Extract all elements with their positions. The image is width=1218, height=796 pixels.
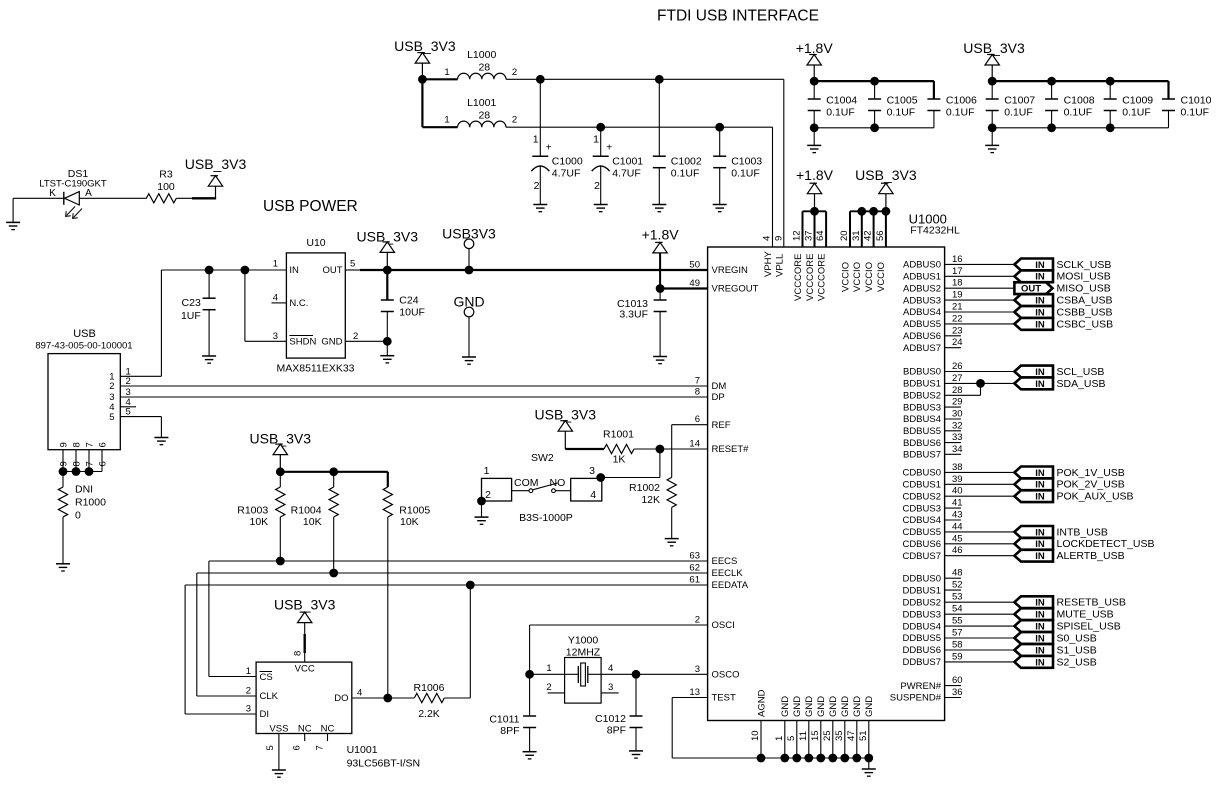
svg-text:USB_3V3: USB_3V3 — [274, 597, 336, 613]
U1000 pin 61 EEDATA — [689, 575, 748, 592]
U1000 pin 34 BDBUS7 — [903, 444, 963, 461]
testpoint GND — [453, 294, 484, 358]
svg-text:FTDI USB INTERFACE: FTDI USB INTERFACE — [657, 8, 819, 25]
svg-text:6: 6 — [695, 414, 700, 425]
svg-text:GND: GND — [828, 696, 839, 717]
svg-text:DDBUS6: DDBUS6 — [902, 645, 941, 656]
U1000 pin 28 BDBUS2 — [903, 383, 981, 401]
svg-text:C1006: C1006 — [946, 95, 977, 107]
svg-text:DI: DI — [260, 709, 270, 720]
svg-text:BDBUS4: BDBUS4 — [903, 414, 941, 425]
svg-text:CDBUS5: CDBUS5 — [902, 527, 941, 538]
svg-text:6: 6 — [292, 745, 303, 750]
svg-text:VCCIO: VCCIO — [852, 262, 863, 292]
svg-text:5: 5 — [350, 259, 355, 270]
svg-text:5: 5 — [265, 745, 276, 750]
svg-text:COM: COM — [514, 477, 539, 489]
junction C1001 top — [596, 123, 605, 132]
svg-text:C1002: C1002 — [671, 156, 702, 168]
junction BDBUS2 to SDA_USB — [976, 379, 985, 388]
svg-text:100: 100 — [157, 181, 175, 193]
wire RESET# to chip — [660, 448, 708, 450]
U1000 pin 21 ADBUS4 — [903, 302, 1014, 319]
USB connector 897-43-005-00-100001 — [35, 328, 132, 450]
svg-text:0.1UF: 0.1UF — [1181, 107, 1210, 119]
svg-text:IN: IN — [1035, 657, 1045, 668]
svg-text:U1001: U1001 — [347, 744, 378, 756]
svg-text:B3S-1000P: B3S-1000P — [519, 512, 573, 524]
svg-text:7: 7 — [84, 461, 95, 466]
svg-text:48: 48 — [952, 568, 963, 579]
svg-text:VCC: VCC — [295, 663, 315, 674]
svg-text:EECS: EECS — [712, 556, 738, 567]
title FTDI USB INTERFACE — [657, 8, 819, 25]
junction C24 top — [383, 266, 392, 275]
svg-text:10K: 10K — [250, 516, 269, 528]
svg-text:897-43-005-00-100001: 897-43-005-00-100001 — [35, 341, 132, 352]
svg-text:N.C.: N.C. — [289, 298, 308, 309]
svg-text:GND: GND — [321, 337, 342, 348]
svg-text:2: 2 — [546, 682, 551, 693]
svg-text:2: 2 — [353, 331, 358, 342]
power USB_3V3 (C1007 group) — [963, 40, 1025, 81]
net CSBA_USB flag — [1014, 294, 1112, 306]
svg-text:28: 28 — [952, 385, 963, 396]
svg-text:R1000: R1000 — [75, 497, 106, 509]
U1000 pin 22 ADBUS5 — [903, 313, 1014, 330]
capacitor C1006 0.1UF — [927, 95, 977, 128]
svg-text:ADBUS1: ADBUS1 — [903, 272, 941, 283]
wire USB_3V3 rail top — [992, 81, 1168, 99]
svg-text:22: 22 — [952, 313, 963, 324]
U1000 pin 23 ADBUS6 — [903, 325, 963, 342]
junction C1013 / VREGOUT — [656, 284, 665, 293]
net CSBB_USB flag — [1014, 306, 1112, 318]
junction DO / R1005 — [383, 694, 392, 703]
svg-text:R1005: R1005 — [399, 505, 430, 517]
wire R3 to USB_3V3 — [176, 186, 216, 199]
svg-text:26: 26 — [952, 361, 963, 372]
svg-text:DDBUS5: DDBUS5 — [902, 633, 941, 644]
junction OSCI / C1011 / Y1000 pin1 — [525, 670, 534, 679]
svg-text:SCL_USB: SCL_USB — [1057, 366, 1105, 378]
svg-text:12MHZ: 12MHZ — [566, 647, 601, 659]
svg-text:63: 63 — [689, 551, 700, 562]
svg-text:12: 12 — [792, 230, 803, 241]
svg-text:0.1UF: 0.1UF — [826, 107, 855, 119]
wire RESET# down to SW2 — [601, 449, 660, 478]
U1000 GND pins 1 5 11 15 25 35 47 51 — [774, 696, 875, 758]
ground (C23) — [202, 356, 216, 363]
wire USB_3V3 to R1001 — [565, 448, 604, 450]
capacitor C1012 8PF — [595, 674, 642, 751]
junction USB_3V3 / L1000 / L1001 — [418, 75, 427, 84]
svg-text:MUTE_USB: MUTE_USB — [1057, 609, 1114, 621]
junction AGND — [757, 754, 766, 763]
wire L1000 pin2 to VPLL (net VCC3V3F) — [506, 79, 784, 247]
resistor R1005 10K — [383, 487, 430, 698]
svg-text:USB POWER: USB POWER — [263, 198, 358, 215]
svg-text:51: 51 — [858, 730, 869, 741]
svg-text:4: 4 — [608, 663, 613, 674]
svg-text:NC: NC — [298, 723, 312, 734]
svg-text:21: 21 — [952, 302, 963, 313]
resistor R1002 12K — [629, 477, 676, 538]
power +1.8V (C1004 group) — [796, 40, 834, 81]
junction C23 — [205, 266, 214, 275]
svg-text:1: 1 — [246, 666, 251, 677]
junction VCCIO 31 — [857, 207, 866, 216]
svg-text:23: 23 — [952, 325, 963, 336]
svg-text:USB_3V3: USB_3V3 — [963, 40, 1025, 56]
svg-text:4.7UF: 4.7UF — [612, 168, 641, 180]
svg-text:CSBC_USB: CSBC_USB — [1057, 318, 1114, 330]
svg-text:5: 5 — [786, 736, 797, 741]
U1000 pin 18 ADBUS2 — [903, 278, 1014, 295]
junction OSCO / C1012 — [632, 670, 641, 679]
svg-text:IN: IN — [1035, 319, 1045, 330]
svg-text:0.1UF: 0.1UF — [887, 107, 916, 119]
junction SW2 pin2 — [477, 497, 486, 506]
switch SW2 B3S-1000P — [482, 452, 602, 524]
capacitor C1001 4.7UF — [592, 127, 644, 204]
svg-text:50: 50 — [689, 260, 700, 271]
net ALERTB_USB flag — [1014, 550, 1124, 562]
junction C24 bottom / U10 GND — [383, 337, 392, 346]
svg-text:60: 60 — [952, 675, 963, 686]
svg-text:VREGIN: VREGIN — [712, 265, 749, 276]
junction shield 7 — [85, 467, 94, 476]
wire U1001 DO — [352, 697, 388, 699]
svg-text:BDBUS5: BDBUS5 — [903, 426, 941, 437]
net POK_AUX_USB flag — [1014, 490, 1133, 502]
U1000 pin 46 CDBUS7 — [902, 545, 1014, 562]
junction EECS / R1003 — [276, 557, 285, 566]
U1000 pin 45 CDBUS6 — [902, 533, 1014, 550]
svg-text:TEST: TEST — [712, 693, 736, 704]
svg-text:CDBUS4: CDBUS4 — [902, 515, 941, 526]
svg-text:DDBUS0: DDBUS0 — [902, 573, 941, 584]
capacitor C1011 8PF — [489, 674, 536, 751]
junction RESET# node — [656, 445, 665, 454]
svg-text:FT4232HL: FT4232HL — [910, 225, 960, 237]
svg-text:BDBUS7: BDBUS7 — [903, 450, 941, 461]
svg-text:ADBUS4: ADBUS4 — [903, 307, 941, 318]
svg-text:2: 2 — [534, 180, 540, 192]
U1000 VCCIO pins 20 31 42 56 — [839, 211, 887, 292]
U1000 pin 54 DDBUS3 — [902, 604, 1014, 621]
USB pin 4 stub — [109, 397, 136, 413]
svg-text:OSCI: OSCI — [712, 620, 735, 631]
svg-text:0.1UF: 0.1UF — [1064, 107, 1093, 119]
wire REF to R1002 — [672, 425, 708, 478]
svg-text:VCCIO: VCCIO — [864, 262, 875, 292]
U1000 pin 55 DDBUS4 — [902, 616, 1014, 633]
svg-text:PWREN#: PWREN# — [900, 681, 941, 692]
svg-text:CSBA_USB: CSBA_USB — [1057, 295, 1113, 307]
wire U10 OUT / VREGIN rail — [345, 269, 707, 271]
U1000 pin 9 VPLL — [773, 236, 785, 277]
svg-text:DO: DO — [334, 693, 348, 704]
svg-text:DDBUS4: DDBUS4 — [902, 621, 941, 632]
svg-text:7: 7 — [84, 442, 95, 447]
svg-text:39: 39 — [952, 474, 963, 485]
capacitor C1000 4.7UF — [531, 79, 583, 204]
svg-text:MAX8511EXK33: MAX8511EXK33 — [276, 363, 354, 375]
wire pull-up rail — [280, 472, 388, 487]
wire USB pin1 to U10 IN — [120, 270, 286, 376]
U1000 pin 14 RESET# — [689, 439, 749, 456]
svg-text:CDBUS6: CDBUS6 — [902, 539, 941, 550]
svg-text:GND: GND — [864, 696, 875, 717]
svg-text:8: 8 — [695, 387, 700, 398]
svg-text:SCLK_USB: SCLK_USB — [1057, 259, 1112, 271]
svg-text:U10: U10 — [306, 237, 325, 249]
USB pin 1 — [109, 366, 131, 382]
svg-text:3: 3 — [695, 664, 700, 675]
svg-text:VPLL: VPLL — [775, 254, 786, 277]
junction VCCIO 42 — [869, 207, 878, 216]
svg-text:6: 6 — [97, 461, 108, 466]
svg-text:1K: 1K — [613, 454, 626, 466]
svg-text:VPHY: VPHY — [763, 250, 774, 277]
svg-text:R1004: R1004 — [291, 505, 322, 517]
svg-text:62: 62 — [689, 563, 700, 574]
U1000 pin 10 AGND — [750, 689, 767, 758]
svg-text:56: 56 — [875, 230, 886, 241]
svg-text:5: 5 — [109, 412, 114, 423]
svg-text:RESETB_USB: RESETB_USB — [1057, 597, 1126, 609]
svg-text:2: 2 — [695, 615, 700, 626]
svg-text:55: 55 — [952, 616, 963, 627]
svg-text:17: 17 — [952, 266, 963, 277]
svg-text:CDBUS3: CDBUS3 — [902, 503, 941, 514]
svg-text:5: 5 — [126, 407, 131, 418]
svg-text:VCCIO: VCCIO — [876, 262, 887, 292]
power USB_3V3 (at R1001) — [535, 407, 597, 449]
wire SHDN branch — [245, 270, 287, 341]
svg-text:BDBUS1: BDBUS1 — [903, 379, 941, 390]
capacitor C1005 0.1UF — [868, 81, 918, 128]
svg-text:OUT: OUT — [322, 265, 342, 276]
svg-text:1: 1 — [273, 259, 278, 270]
svg-text:NC: NC — [321, 723, 335, 734]
svg-text:8: 8 — [71, 461, 82, 466]
svg-text:AGND: AGND — [756, 689, 767, 717]
svg-text:1: 1 — [774, 736, 785, 741]
U1000 pin 8 DP — [695, 387, 725, 404]
wire OSCI — [530, 625, 708, 674]
USB pin 2 / wire DM — [109, 376, 707, 392]
svg-text:VCCCORE: VCCCORE — [805, 253, 816, 301]
svg-text:+1.8V: +1.8V — [796, 40, 834, 56]
svg-text:19: 19 — [952, 290, 963, 301]
net MISO_USB flag — [1014, 282, 1110, 294]
svg-text:33: 33 — [952, 432, 963, 443]
svg-text:R1003: R1003 — [237, 505, 268, 517]
svg-text:LOCKDETECT_USB: LOCKDETECT_USB — [1057, 538, 1155, 550]
power +1.8V (VCCCORE) — [796, 167, 834, 211]
svg-text:41: 41 — [952, 498, 963, 509]
wire ground bus — [761, 757, 869, 759]
junction rail R1004 — [329, 467, 338, 476]
svg-text:VCCCORE: VCCCORE — [793, 253, 804, 301]
svg-text:+1.8V: +1.8V — [796, 167, 834, 183]
svg-text:27: 27 — [952, 373, 963, 384]
svg-text:DNI: DNI — [75, 484, 93, 496]
svg-text:43: 43 — [952, 510, 963, 521]
U1000 pin 26 BDBUS0 — [903, 361, 1014, 378]
svg-text:CSBB_USB: CSBB_USB — [1057, 306, 1113, 318]
svg-text:USB: USB — [73, 328, 96, 340]
ground (R1000) — [56, 564, 70, 571]
svg-text:3: 3 — [246, 704, 251, 715]
wire LED anode to R3 — [79, 197, 146, 199]
svg-text:C1005: C1005 — [887, 95, 918, 107]
junction VCCCORE — [810, 207, 819, 216]
svg-text:BDBUS3: BDBUS3 — [903, 402, 941, 413]
wire R1006 to EEDATA — [469, 585, 471, 698]
ground (GND testpoint) — [462, 357, 476, 364]
wire L1001 pin2 to VPHY — [506, 127, 773, 247]
ground (C1013) — [653, 357, 667, 364]
LED DS1 LTST-C190GKT — [39, 168, 107, 218]
net S1_USB flag — [1014, 644, 1096, 656]
svg-text:8: 8 — [293, 651, 304, 656]
ground (C1004 group) — [807, 128, 821, 153]
svg-text:ADBUS3: ADBUS3 — [903, 295, 941, 306]
U1000 pin 19 ADBUS3 — [903, 290, 1014, 307]
junction rail C1008 — [1047, 77, 1056, 86]
U1000 pin 2 OSCI — [695, 615, 735, 632]
svg-text:GND: GND — [792, 696, 803, 717]
power USB_3V3 (U1001 VCC) — [274, 597, 336, 663]
U1000 pin 32 BDBUS5 — [903, 420, 963, 437]
svg-text:0.1UF: 0.1UF — [1004, 107, 1033, 119]
svg-text:GND: GND — [804, 696, 815, 717]
junction shield 9 — [59, 467, 68, 476]
U1000 pin 63 EECS — [689, 551, 737, 568]
svg-text:REF: REF — [712, 420, 731, 431]
junction C1000 top — [536, 75, 545, 84]
svg-text:49: 49 — [689, 278, 700, 289]
svg-text:BDBUS6: BDBUS6 — [903, 438, 941, 449]
svg-text:37: 37 — [804, 230, 815, 241]
svg-text:VCCCORE: VCCCORE — [816, 253, 827, 301]
svg-text:Y1000: Y1000 — [568, 635, 599, 647]
svg-text:47: 47 — [846, 730, 857, 741]
svg-text:6: 6 — [97, 442, 108, 447]
svg-text:24: 24 — [952, 337, 963, 348]
wire TEST to ground bus — [672, 698, 761, 759]
svg-text:2.2K: 2.2K — [418, 708, 440, 720]
svg-text:IN: IN — [1035, 379, 1045, 390]
U1000 pin 33 BDBUS6 — [903, 432, 963, 449]
svg-text:CS: CS — [260, 672, 273, 683]
resistor R1001 1K — [603, 429, 660, 466]
svg-text:BDBUS0: BDBUS0 — [903, 367, 941, 378]
net SCL_USB flag — [1014, 366, 1104, 378]
junction gnd rail C1009 — [1106, 123, 1115, 132]
svg-text:IN: IN — [289, 265, 299, 276]
ground (C1003) — [713, 205, 727, 212]
net SDA_USB flag — [1014, 378, 1105, 390]
net SPISEL_USB flag — [1014, 620, 1120, 632]
svg-text:32: 32 — [952, 420, 963, 431]
svg-text:58: 58 — [952, 640, 963, 651]
U1000 pin 53 DDBUS2 — [902, 592, 1014, 609]
wire ground rail (C1004 group) — [814, 127, 934, 129]
junction GND 47 — [852, 754, 861, 763]
svg-text:C1011: C1011 — [489, 714, 519, 726]
svg-text:R1006: R1006 — [414, 682, 445, 694]
U1000 pin 4 VPHY — [762, 236, 774, 277]
svg-text:C1009: C1009 — [1122, 95, 1153, 107]
svg-text:S1_USB: S1_USB — [1057, 644, 1097, 656]
svg-text:R1002: R1002 — [629, 482, 660, 494]
svg-text:15: 15 — [810, 730, 821, 741]
wire U10 GND pin2 — [345, 340, 387, 342]
ground (C1011) — [523, 752, 537, 759]
svg-text:S0_USB: S0_USB — [1057, 632, 1097, 644]
power USB_3V3 (pull-ups) — [250, 431, 312, 472]
wire ground rail (C1007 group) — [992, 127, 1168, 129]
svg-text:EECLK: EECLK — [712, 568, 744, 579]
wire to Y1000 pin 1 — [530, 673, 565, 675]
svg-text:CDBUS0: CDBUS0 — [902, 468, 941, 479]
svg-text:35: 35 — [834, 730, 845, 741]
svg-text:54: 54 — [952, 604, 963, 615]
net S2_USB flag — [1014, 656, 1096, 668]
junction C1002 top — [655, 75, 664, 84]
svg-text:57: 57 — [952, 628, 963, 639]
U1000 pin 27 BDBUS1 — [903, 373, 1014, 390]
ground (C1000) — [533, 205, 547, 212]
U1000 pin 52 DDBUS1 — [902, 580, 962, 597]
junction VCCIO 56 — [882, 207, 891, 216]
capacitor C23 1UF — [181, 270, 216, 356]
svg-text:ADBUS7: ADBUS7 — [903, 343, 941, 354]
svg-text:18: 18 — [952, 278, 963, 289]
svg-text:+: + — [546, 143, 552, 154]
U1000 pin 3 OSCO — [695, 664, 740, 681]
U1000 pin 48 DDBUS0 — [902, 568, 962, 585]
capacitor C1007 0.1UF — [986, 81, 1036, 128]
svg-text:1: 1 — [593, 134, 599, 146]
power +1.8V (at C1013) — [642, 227, 680, 289]
junction GND 35 — [840, 754, 849, 763]
resistor R1004 10K — [291, 472, 339, 573]
svg-text:2: 2 — [594, 180, 600, 192]
svg-text:GND: GND — [840, 696, 851, 717]
U1000 pin 6 REF — [695, 414, 731, 431]
U1000 pin 7 DM — [695, 376, 727, 393]
svg-text:CDBUS7: CDBUS7 — [902, 551, 941, 562]
junction USB3V3 testpoint — [465, 266, 474, 275]
svg-text:64: 64 — [815, 230, 826, 241]
svg-text:ADBUS2: ADBUS2 — [903, 283, 941, 294]
U1000 pin 24 ADBUS7 — [903, 337, 963, 354]
svg-text:DM: DM — [712, 381, 727, 392]
svg-text:OSCO: OSCO — [712, 670, 740, 681]
svg-text:C24: C24 — [399, 295, 418, 307]
junction GND 5 — [792, 754, 801, 763]
svg-text:0.1UF: 0.1UF — [1122, 107, 1151, 119]
junction gnd rail C1007 — [988, 123, 997, 132]
svg-text:POK_AUX_USB: POK_AUX_USB — [1057, 491, 1134, 503]
svg-text:9: 9 — [58, 442, 69, 447]
svg-text:7: 7 — [315, 745, 326, 750]
